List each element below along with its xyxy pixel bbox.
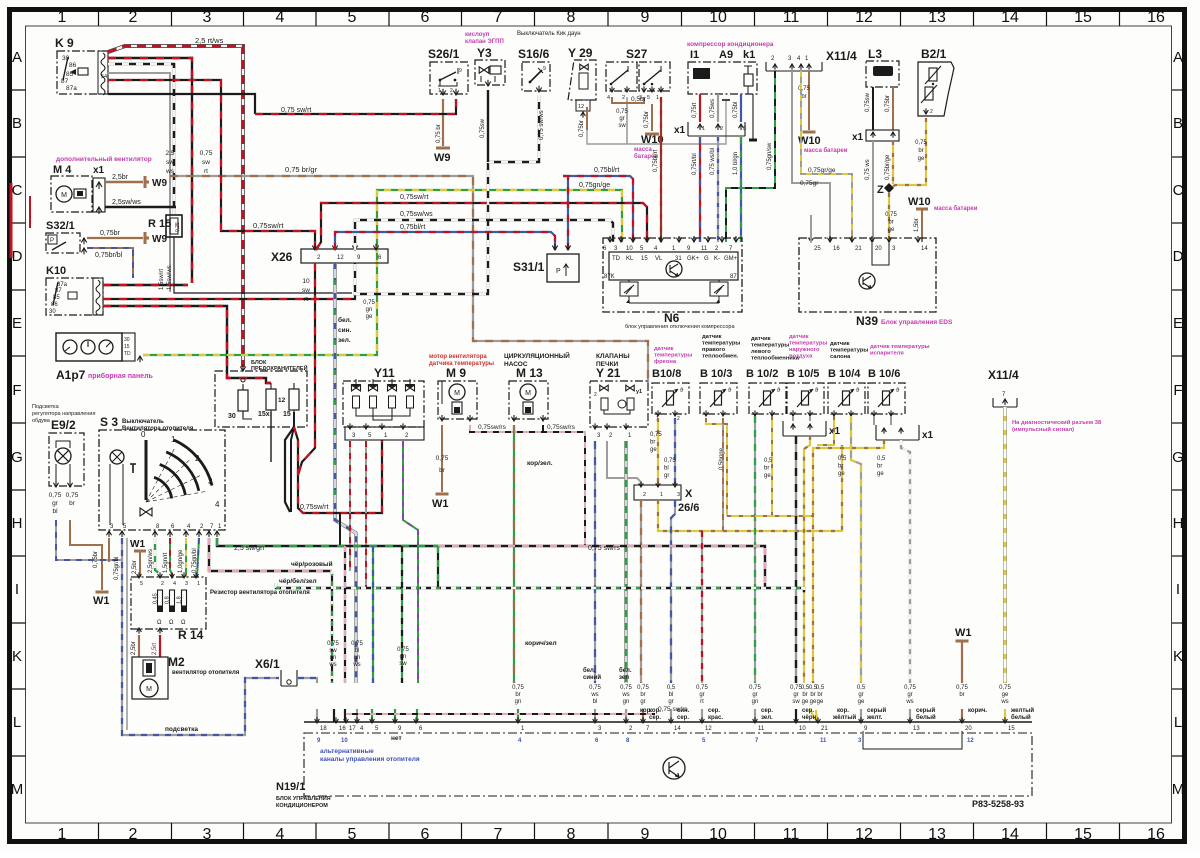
- svg-text:L: L: [13, 714, 21, 731]
- svg-text:13: 13: [913, 726, 920, 732]
- wire 0,75br/gn: [513, 425, 515, 722]
- svg-text:КОНДИЦИОНЕРОМ: КОНДИЦИОНЕРОМ: [276, 803, 328, 809]
- svg-text:k1: k1: [743, 49, 755, 61]
- wire 0,75br X11/4 pin1 to W10: [808, 71, 810, 130]
- ground W9 (S32/1): [145, 237, 149, 240]
- wire 0,75bl/rt upper: [563, 176, 633, 242]
- wire 1,0bl/gn: [740, 137, 742, 242]
- svg-text:11: 11: [783, 9, 800, 26]
- wire 0,75sw/ws X26 pin 9 to N6 pin 6: [355, 220, 613, 250]
- wire br/gr down: [640, 500, 642, 722]
- svg-text:L: L: [1174, 714, 1182, 731]
- sensor B10/3: [700, 383, 737, 414]
- svg-text:0,8: 0,8: [165, 596, 171, 604]
- svg-text:5: 5: [348, 9, 357, 26]
- svg-text:GM+: GM+: [724, 256, 738, 262]
- svg-text:жёлтый: жёлтый: [832, 714, 856, 721]
- svg-text:15: 15: [641, 256, 648, 262]
- svg-text:S 3: S 3: [100, 415, 118, 429]
- sensor B10/5: [787, 383, 824, 414]
- svg-text:16: 16: [1147, 826, 1165, 843]
- svg-text:крас.: крас.: [708, 715, 723, 721]
- svg-text:масса: масса: [634, 147, 652, 153]
- svg-text:2: 2: [129, 826, 138, 843]
- svg-text:ge: ge: [858, 699, 865, 705]
- wire B10/5 stubs: [792, 416, 794, 421]
- svg-text:13: 13: [928, 9, 946, 26]
- svg-text:1: 1: [660, 492, 663, 498]
- wire br/ge 813: [813, 440, 884, 722]
- wire stubs into N19/1 pins: [316, 709, 318, 722]
- wire 0,75br S27 pin5 to W10: [651, 104, 653, 131]
- sensor B10/2: [749, 383, 786, 414]
- wire br/ge 804: [804, 436, 817, 722]
- wire swrs 345: [344, 546, 346, 722]
- wire 1,0gn/ge: [185, 538, 187, 577]
- wire Y21 pin2: [607, 441, 641, 485]
- svg-text:br: br: [640, 692, 645, 698]
- svg-text:Y 29: Y 29: [568, 46, 593, 60]
- svg-text:E9/2: E9/2: [51, 418, 76, 432]
- svg-text:VL: VL: [655, 256, 663, 262]
- wire 0,75ws A9 to x1: [717, 94, 719, 122]
- switch S32/1: [46, 233, 80, 253]
- wire ge/ws: [1003, 407, 1007, 722]
- svg-text:0,75br: 0,75br: [100, 230, 121, 237]
- wire 0,75br S26/1 to W9: [442, 99, 444, 146]
- svg-text:бел.: бел.: [619, 667, 632, 674]
- svg-text:br: br: [810, 692, 815, 698]
- svg-text:0,75: 0,75: [66, 492, 79, 499]
- svg-text:0,75gn/sw: 0,75gn/sw: [767, 142, 773, 170]
- svg-text:K: K: [12, 648, 22, 665]
- svg-text:P83-5258-93: P83-5258-93: [972, 799, 1024, 809]
- switch S27: [606, 62, 637, 91]
- wire 0,75br E9/2 to W1: [70, 520, 102, 590]
- svg-text:X11/4: X11/4: [988, 368, 1019, 382]
- red scan mark on left margin: [10, 183, 13, 258]
- svg-text:3: 3: [185, 581, 188, 587]
- relay K10: [46, 278, 103, 315]
- wire B10/4 br/ge: [817, 416, 834, 445]
- svg-text:Y 21: Y 21: [596, 366, 621, 380]
- svg-text:2: 2: [677, 416, 680, 422]
- svg-text:12: 12: [578, 104, 584, 110]
- svg-text:масса батареи: масса батареи: [804, 147, 848, 154]
- connector x1 of M4: [93, 178, 105, 212]
- svg-text:br: br: [838, 464, 843, 470]
- svg-text:30: 30: [49, 309, 56, 315]
- svg-text:кор/зел.: кор/зел.: [527, 460, 553, 467]
- wire 2,5 sw/ws from K9 to R15: [108, 64, 174, 215]
- svg-text:gr: gr: [793, 692, 798, 698]
- svg-text:ws: ws: [621, 692, 629, 698]
- wire sw/rs bus y546b: [438, 545, 585, 547]
- svg-text:W1: W1: [432, 498, 449, 510]
- svg-text:компрессор кондиционера: компрессор кондиционера: [687, 41, 774, 48]
- svg-text:9: 9: [641, 9, 650, 26]
- ground W9 under S26/1: [436, 147, 450, 150]
- valve block Y21: [590, 381, 648, 427]
- svg-text:0,75: 0,75: [363, 300, 375, 306]
- svg-text:20: 20: [965, 726, 972, 732]
- svg-text:M: M: [11, 781, 24, 798]
- svg-text:0,75sw: 0,75sw: [480, 118, 486, 138]
- svg-text:TD: TD: [124, 351, 131, 357]
- svg-text:ws: ws: [352, 662, 360, 668]
- wire K10 87 output: [103, 284, 188, 286]
- svg-text:2,5br: 2,5br: [131, 641, 137, 655]
- svg-text:ge: ge: [817, 699, 824, 705]
- wire fuse 15x output: [270, 412, 272, 462]
- svg-text:0,75rt/bl: 0,75rt/bl: [692, 153, 698, 175]
- svg-text:3: 3: [203, 826, 212, 843]
- wire 0,75gr: [792, 71, 830, 242]
- svg-text:12: 12: [855, 826, 873, 843]
- svg-text:br: br: [439, 467, 446, 474]
- svg-text:87K: 87K: [604, 274, 615, 280]
- svg-text:12: 12: [967, 738, 974, 744]
- svg-text:сер.: сер.: [761, 708, 773, 714]
- svg-text:1,5br: 1,5br: [914, 218, 920, 232]
- svg-text:зел.: зел.: [338, 337, 351, 344]
- svg-text:S32/1: S32/1: [46, 220, 75, 232]
- motor M9: [438, 381, 477, 419]
- svg-text:серый: серый: [867, 707, 886, 714]
- svg-text:0,75: 0,75: [915, 140, 927, 146]
- svg-text:L3: L3: [868, 47, 882, 61]
- connector x1 of compressor: [688, 122, 745, 136]
- svg-text:K 9: K 9: [55, 36, 74, 50]
- label clearing band above N19/1: [302, 683, 1042, 722]
- wire swgnws 332: [331, 571, 333, 722]
- svg-text:клапан ЭГПП: клапан ЭГПП: [465, 39, 504, 45]
- wire 2,5gn/ws: [155, 538, 160, 577]
- wire K10 30 to fuse 15x: [103, 306, 271, 383]
- svg-text:N6: N6: [664, 311, 680, 325]
- svg-text:кор.: кор.: [640, 708, 652, 714]
- svg-text:12: 12: [337, 255, 344, 261]
- svg-text:A: A: [12, 49, 22, 66]
- svg-text:бел.: бел.: [338, 316, 352, 324]
- svg-text:M 4: M 4: [53, 164, 72, 176]
- svg-text:X6/1: X6/1: [255, 657, 280, 671]
- svg-text:датчик: датчик: [654, 346, 674, 352]
- svg-text:Выключатель Кик даун: Выключатель Кик даун: [517, 31, 581, 37]
- svg-text:0,75: 0,75: [637, 685, 649, 691]
- svg-text:11: 11: [701, 246, 708, 252]
- svg-text:x1: x1: [852, 132, 864, 143]
- svg-text:30: 30: [124, 337, 130, 343]
- wire 0,75br/ge: [892, 141, 894, 184]
- svg-text:W9: W9: [434, 152, 451, 164]
- motor M4: [51, 176, 92, 212]
- svg-text:1: 1: [702, 126, 705, 132]
- svg-text:наружного: наружного: [789, 347, 820, 353]
- wire 0,75sw/rs upper: [470, 425, 585, 546]
- svg-text:сер.: сер.: [677, 715, 689, 721]
- svg-text:0,75: 0,75: [327, 641, 339, 647]
- svg-text:температуры: температуры: [751, 343, 789, 349]
- svg-text:M 9: M 9: [446, 366, 466, 380]
- svg-text:Блок управления EDS: Блок управления EDS: [881, 319, 953, 326]
- svg-text:0,75sw/ws: 0,75sw/ws: [400, 211, 433, 218]
- svg-text:подсветка: подсветка: [165, 726, 198, 733]
- svg-text:S27: S27: [626, 47, 648, 61]
- wire sw/rs bus y546c: [585, 546, 765, 588]
- svg-text:10: 10: [709, 9, 727, 26]
- wire 0,75br W1 to N19/1 pin 20: [961, 641, 963, 722]
- svg-text:x1: x1: [922, 430, 934, 441]
- svg-text:6: 6: [421, 826, 430, 843]
- svg-text:0,75sw/rs: 0,75sw/rs: [478, 424, 507, 431]
- svg-text:X26: X26: [271, 250, 293, 264]
- svg-text:gn: gn: [623, 699, 630, 705]
- svg-text:приборная панель: приборная панель: [88, 372, 154, 380]
- svg-text:10: 10: [799, 726, 806, 732]
- wire sw bus y546: [217, 538, 438, 546]
- svg-text:Y11: Y11: [374, 366, 395, 380]
- svg-text:син.: син.: [677, 708, 690, 714]
- wire ws/bl/gn: [335, 263, 359, 722]
- svg-text:1: 1: [58, 9, 67, 26]
- svg-text:br: br: [877, 464, 882, 470]
- fuse box (блок предохранителей): [215, 371, 307, 427]
- svg-text:4: 4: [173, 581, 176, 587]
- svg-text:0,5: 0,5: [857, 685, 866, 691]
- motor M2: [132, 657, 168, 699]
- svg-text:1: 1: [197, 581, 200, 587]
- svg-text:0,75: 0,75: [885, 212, 897, 218]
- svg-text:I: I: [15, 581, 19, 598]
- svg-text:br: br: [515, 692, 520, 698]
- wire br/ge bus y516: [727, 515, 813, 517]
- wire grrt 702: [701, 531, 703, 722]
- svg-text:Ω: Ω: [169, 620, 174, 626]
- svg-text:0: 0: [141, 430, 146, 439]
- svg-text:bl: bl: [52, 508, 58, 515]
- svg-text:12: 12: [705, 726, 712, 732]
- svg-text:2: 2: [930, 109, 933, 115]
- wire br/gr from K9 85: [108, 73, 170, 292]
- svg-text:левого: левого: [751, 349, 771, 355]
- wire 0,75sw/rt to N6 pin 5: [316, 203, 647, 250]
- svg-text:gr: gr: [858, 692, 863, 698]
- svg-text:ЦИРКУЛЯЦИОННЫЙ: ЦИРКУЛЯЦИОННЫЙ: [504, 351, 570, 360]
- svg-text:sw: sw: [302, 287, 310, 294]
- svg-text:4: 4: [276, 826, 285, 843]
- svg-text:0,5: 0,5: [838, 456, 847, 462]
- svg-text:R 14: R 14: [178, 628, 204, 642]
- svg-text:8: 8: [567, 826, 576, 843]
- svg-text:gr: gr: [52, 500, 59, 507]
- wire 0,75 sw/rt from K9 87 to X26: [108, 80, 315, 250]
- svg-text:C: C: [1173, 182, 1184, 199]
- svg-text:2,5 sw/gn: 2,5 sw/gn: [234, 545, 264, 552]
- wire 0,75ws/gn: [624, 441, 628, 722]
- wire 0,75rt I1 to x1: [699, 94, 701, 122]
- svg-text:sw: sw: [399, 661, 407, 667]
- svg-text:16: 16: [1147, 9, 1165, 26]
- svg-text:25: 25: [814, 246, 821, 252]
- svg-text:11: 11: [783, 826, 800, 843]
- svg-text:G: G: [704, 256, 709, 262]
- wire br/ge B10/8: [657, 418, 659, 485]
- svg-text:ws: ws: [165, 168, 175, 175]
- svg-text:87: 87: [730, 274, 737, 280]
- wire 0,75bl k1 to x1: [740, 94, 742, 122]
- svg-text:0,75: 0,75: [956, 685, 968, 691]
- wire 0,75br S3 pin3: [108, 538, 110, 562]
- svg-text:W1: W1: [130, 539, 145, 550]
- wire K9 87a to S26/1: [108, 94, 255, 114]
- svg-text:A: A: [1173, 49, 1183, 66]
- wire black-pink y571: [209, 538, 332, 571]
- control unit N6: [603, 238, 742, 312]
- svg-text:0,75sw/rs: 0,75sw/rs: [547, 424, 576, 431]
- svg-text:0,75br/bl: 0,75br/bl: [95, 252, 123, 259]
- valve Y29: [568, 60, 596, 100]
- svg-text:0,75: 0,75: [904, 685, 916, 691]
- wire 0,75ws/bl: [717, 137, 719, 242]
- wire 10 sw/rt: [298, 263, 315, 475]
- svg-text:белый: белый: [1011, 714, 1031, 721]
- svg-text:0,75bl/rt: 0,75bl/rt: [400, 224, 425, 231]
- svg-text:C: C: [12, 182, 23, 199]
- svg-text:сер.: сер.: [802, 708, 814, 714]
- svg-text:bl: bl: [664, 466, 669, 472]
- svg-text:2: 2: [129, 9, 138, 26]
- svg-text:БЛОК УПРАВЛЕНИЯ: БЛОК УПРАВЛЕНИЯ: [276, 796, 331, 802]
- svg-text:0,75: 0,75: [397, 647, 409, 653]
- svg-text:ge: ge: [888, 227, 895, 233]
- svg-text:br: br: [817, 692, 822, 698]
- svg-text:3: 3: [743, 126, 746, 132]
- svg-text:желт.: желт.: [866, 715, 883, 721]
- svg-text:Резистор вентилятора отопителя: Резистор вентилятора отопителя: [210, 590, 310, 596]
- ground W10 under S27: [645, 133, 659, 136]
- connector x1 of B10/5: [783, 421, 826, 436]
- svg-text:0,75bl/rt: 0,75bl/rt: [594, 167, 619, 174]
- svg-text:1: 1: [656, 95, 659, 101]
- svg-text:br: br: [650, 440, 655, 446]
- svg-text:ws: ws: [328, 662, 336, 668]
- switch S16/6: [522, 62, 550, 91]
- svg-text:9: 9: [459, 68, 462, 74]
- svg-text:0,75: 0,75: [620, 685, 632, 691]
- svg-text:датчик температуры: датчик температуры: [870, 344, 930, 350]
- svg-text:x1: x1: [93, 165, 105, 176]
- svg-text:бел.: бел.: [583, 667, 596, 674]
- wire 0,75rt/bl: [699, 137, 701, 242]
- svg-text:ws: ws: [905, 699, 913, 705]
- svg-text:B: B: [12, 115, 22, 132]
- svg-text:Z: Z: [877, 184, 884, 196]
- wire br/gr branch: [170, 176, 648, 383]
- svg-text:датчик: датчик: [751, 336, 771, 342]
- svg-text:gn: gn: [354, 655, 361, 661]
- wire B10/6 stubs: [873, 416, 875, 425]
- wire gnbl 373: [372, 546, 374, 722]
- svg-text:0,75sw/rt: 0,75sw/rt: [253, 221, 284, 230]
- svg-text:K: K: [1173, 648, 1183, 665]
- svg-text:gr: gr: [664, 473, 669, 479]
- svg-text:12: 12: [855, 9, 873, 26]
- connector x1 of L3: [866, 130, 899, 141]
- svg-text:1,8: 1,8: [177, 596, 183, 604]
- svg-text:Y3: Y3: [477, 46, 492, 60]
- svg-text:салона: салона: [830, 354, 851, 360]
- wire black-white-green y588: [276, 583, 804, 592]
- wire 0,75gn/sw from X11/4 pin2 to N39 pin 25: [810, 215, 812, 242]
- svg-text:I1: I1: [690, 49, 699, 61]
- wire 0,75br/ge B2/1: [891, 118, 926, 188]
- wire B10/3 br/ge: [706, 418, 727, 516]
- svg-text:0,75 br/gr: 0,75 br/gr: [285, 165, 318, 174]
- svg-text:W9: W9: [152, 178, 167, 189]
- svg-text:ge: ge: [366, 314, 373, 320]
- svg-text:gn: gn: [400, 654, 407, 660]
- svg-text:1,5sw/ws: 1,5sw/ws: [167, 265, 173, 290]
- svg-text:2,5br: 2,5br: [112, 174, 129, 181]
- svg-text:18: 18: [320, 726, 327, 732]
- wire gnsw 402: [396, 546, 402, 722]
- svg-text:E: E: [12, 315, 22, 332]
- svg-text:2,5 rt/ws: 2,5 rt/ws: [195, 36, 224, 45]
- svg-text:9: 9: [641, 826, 650, 843]
- svg-text:bl: bl: [593, 699, 598, 705]
- svg-text:0,75 sw/ws: 0,75 sw/ws: [539, 110, 545, 140]
- svg-text:11: 11: [820, 738, 827, 744]
- svg-text:0,75: 0,75: [749, 685, 761, 691]
- svg-text:температуры: температуры: [789, 341, 827, 347]
- svg-text:A1p7: A1p7: [56, 368, 86, 382]
- svg-text:bl: bl: [355, 648, 360, 654]
- svg-text:gn: gn: [330, 655, 337, 661]
- wire 0,75 sw Y3: [487, 90, 489, 162]
- svg-text:0,5: 0,5: [764, 458, 773, 464]
- svg-text:1,0gn/ge: 1,0gn/ge: [178, 549, 184, 573]
- svg-text:температуры: температуры: [702, 341, 740, 347]
- svg-text:87a: 87a: [66, 85, 77, 92]
- svg-text:x1: x1: [674, 125, 686, 136]
- wire 1,5sw/rt from R15: [174, 237, 352, 293]
- svg-text:1,5gn/rt: 1,5gn/rt: [163, 552, 169, 573]
- svg-text:испарителя: испарителя: [870, 351, 904, 357]
- svg-text:дополнительный вентилятор: дополнительный вентилятор: [56, 155, 152, 163]
- svg-text:Подсветка: Подсветка: [32, 404, 60, 410]
- wire 0,75 sw/rt S26/1: [255, 99, 456, 114]
- svg-text:br: br: [801, 94, 806, 100]
- svg-text:0,75 ws: 0,75 ws: [865, 159, 871, 180]
- svg-text:G: G: [1172, 449, 1184, 466]
- wire bl/gr B10/8: [674, 418, 676, 485]
- svg-text:корич.: корич.: [968, 708, 987, 714]
- wire 0,75sw L3 to x1: [872, 87, 874, 130]
- svg-text:W10: W10: [908, 196, 931, 208]
- svg-text:ge: ge: [838, 471, 845, 477]
- svg-text:30: 30: [228, 413, 236, 420]
- connector X11/4 (top): [766, 62, 822, 71]
- svg-text:температуры: температуры: [830, 348, 868, 354]
- svg-text:gn: gn: [366, 307, 373, 313]
- svg-text:0,5: 0,5: [816, 685, 825, 691]
- wire sw/gn drop 438: [437, 546, 439, 588]
- svg-text:0,75 sw/rt: 0,75 sw/rt: [281, 107, 311, 114]
- svg-text:ge: ge: [1002, 692, 1009, 698]
- wire gr/sw: [795, 436, 797, 722]
- wire 0,75sw/ws S16/6 to X26 pin 9: [355, 95, 539, 294]
